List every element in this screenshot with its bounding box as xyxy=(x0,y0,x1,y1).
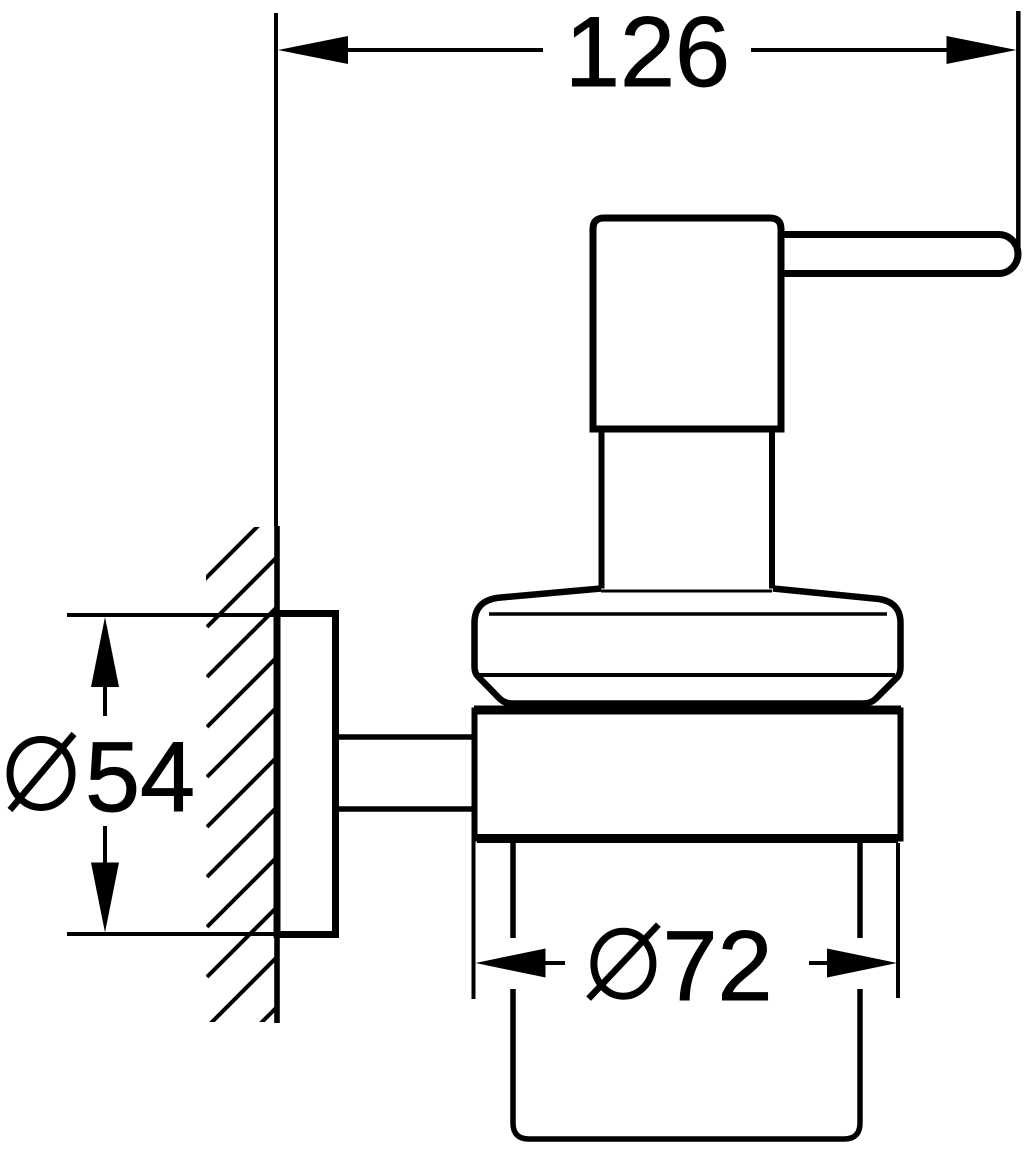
svg-text:54: 54 xyxy=(85,721,195,832)
dia54 dimension line upper segment xyxy=(103,685,107,716)
dia72 arrow left xyxy=(476,949,546,978)
dia54 arrow up xyxy=(91,617,119,687)
mounting arm top edge xyxy=(339,734,474,740)
dia54 dimension line lower segment xyxy=(103,826,107,864)
dia72 diameter symbol xyxy=(594,931,653,996)
glass right wall upper xyxy=(857,843,863,938)
126 arrow right xyxy=(947,36,1017,64)
126 dimension line left segment xyxy=(346,48,543,52)
wall hatching xyxy=(157,500,334,1127)
126 extension line right xyxy=(1016,11,1021,247)
dia54 arrow down xyxy=(91,863,119,933)
svg-text:126: 126 xyxy=(565,0,730,107)
glass lower body xyxy=(513,989,860,1139)
dia54 extension line top xyxy=(67,613,277,617)
wall mounting plate xyxy=(277,614,336,935)
glass left wall upper xyxy=(510,843,516,938)
svg-text:72: 72 xyxy=(662,910,772,1021)
cap inner line lower xyxy=(477,673,895,677)
holder ring body xyxy=(475,711,901,839)
wall section line xyxy=(274,526,280,1023)
dia72 dimension line right stub xyxy=(809,961,830,965)
pump spout xyxy=(775,235,1018,274)
mounting arm bottom edge xyxy=(339,806,474,812)
dia72 extension line left xyxy=(472,841,476,999)
cap inner line upper xyxy=(489,612,887,616)
dia72 arrow right xyxy=(827,949,897,978)
dia54 extension line bottom xyxy=(67,932,277,936)
126 arrow left xyxy=(278,36,348,64)
pump neck left wall xyxy=(599,429,605,591)
wall line upper (extension for 126) xyxy=(274,13,278,526)
holder ring top edge xyxy=(474,706,901,715)
dia72 extension line right xyxy=(896,843,900,998)
dia54 diameter symbol xyxy=(10,740,72,808)
pump head xyxy=(593,218,781,429)
pump neck right wall xyxy=(769,429,775,591)
126 dimension line right segment xyxy=(751,48,949,52)
holder ring bottom edge xyxy=(477,834,898,843)
cap seam across neck base xyxy=(601,590,772,593)
dia72 dimension line left stub xyxy=(544,961,565,965)
dispenser cap/lid xyxy=(475,589,901,704)
